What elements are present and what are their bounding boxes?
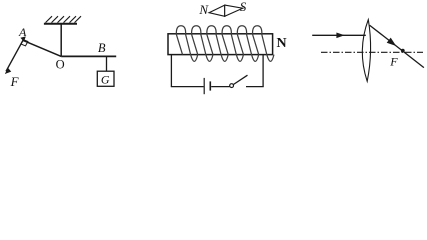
incident ray arrowhead	[336, 33, 344, 39]
incident ray	[312, 34, 366, 36]
svg-text:O: O	[56, 57, 65, 71]
arrowhead F	[5, 68, 11, 74]
coil winding turn 4	[222, 26, 243, 62]
ceiling line	[44, 23, 77, 25]
left lead wire	[170, 55, 172, 87]
convex lens	[362, 20, 370, 82]
optical axis	[321, 51, 423, 53]
refracted ray	[370, 25, 424, 67]
force line F	[6, 37, 25, 71]
svg-text:N: N	[276, 36, 286, 51]
solenoid core	[168, 34, 273, 55]
switch blade	[233, 75, 247, 84]
lever arm O-A	[23, 40, 61, 56]
svg-text:G: G	[101, 73, 110, 87]
bottom wire right	[246, 86, 264, 88]
coil winding turn 2	[192, 26, 213, 62]
svg-text:B: B	[98, 41, 106, 55]
right lead wire	[262, 55, 264, 87]
battery short plate	[209, 81, 211, 90]
svg-text:S: S	[240, 0, 247, 14]
hanger wire at B	[106, 56, 108, 71]
compass needle	[209, 5, 243, 16]
right-angle marker at A	[21, 40, 28, 46]
support rod	[60, 24, 62, 57]
ceiling hatching	[46, 16, 82, 22]
focal point dot	[401, 49, 405, 53]
battery long plate	[203, 78, 205, 94]
arrowhead at A	[20, 36, 25, 41]
coil winding turn 6	[253, 26, 274, 62]
svg-text:F: F	[10, 74, 20, 89]
svg-text:F: F	[389, 55, 398, 69]
coil winding turn 1	[176, 26, 197, 62]
svg-text:A: A	[18, 25, 27, 39]
bottom wire middle	[211, 86, 229, 88]
bottom wire left	[171, 86, 204, 88]
svg-text:N: N	[198, 2, 209, 17]
lever arm O-B	[61, 55, 116, 57]
coil winding turn 3	[207, 26, 228, 62]
refracted ray arrowhead	[387, 38, 397, 46]
switch pivot	[230, 84, 234, 88]
weight box G	[97, 71, 114, 86]
coil winding turn 5	[237, 26, 258, 62]
